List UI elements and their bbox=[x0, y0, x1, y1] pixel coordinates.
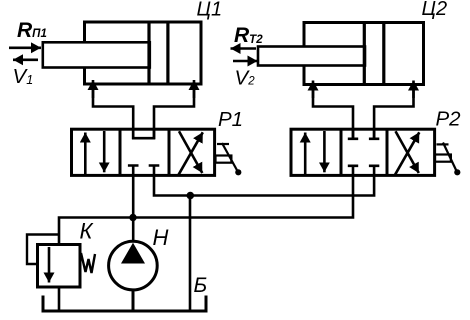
valve Р1 left position parallel arrows bbox=[85, 131, 104, 174]
force arrow RП1 bbox=[9, 46, 41, 49]
wire: Р1 P-port down to pump pressure line bbox=[132, 175, 135, 242]
svg-text:Ц1: Ц1 bbox=[197, 0, 223, 21]
valve Р2 left position parallel arrows bbox=[305, 131, 324, 174]
valve Р1 centre position (A-B joined, P,T blocked) bbox=[128, 130, 159, 176]
svg-text:Р2: Р2 bbox=[436, 108, 462, 131]
cylinder Ц2 bbox=[258, 23, 424, 85]
lever actuator of Р2 bbox=[435, 143, 460, 176]
valve Р2 right position crossed arrows bbox=[395, 131, 419, 175]
velocity arrow V2 bbox=[233, 60, 258, 63]
wire: Ц1 cap-side port to valve Р1 (with arrow into cylinder) bbox=[154, 80, 194, 139]
pump Н bbox=[109, 241, 158, 311]
valve Р1 body bbox=[72, 129, 215, 175]
svg-text:Н: Н bbox=[153, 225, 169, 250]
svg-text:RП1: RП1 bbox=[17, 19, 47, 42]
force arrow RТ2 bbox=[231, 47, 257, 50]
cylinder Ц1 bbox=[43, 22, 201, 84]
svg-text:V2: V2 bbox=[235, 67, 256, 90]
wire: Ц1 rod-side port to valve Р1 (with arrow into cylinder) bbox=[93, 80, 133, 139]
wire: tank return line Р1 T-port to Р2 T-port bbox=[154, 175, 374, 196]
wire: pump pressure line to relief valve and Р2 P-port bbox=[59, 175, 353, 245]
wire: Ц2 rod-side port to valve Р2 (with arrow into cylinder) bbox=[313, 81, 353, 140]
velocity arrow V1 bbox=[13, 58, 38, 61]
tank Б bbox=[43, 296, 206, 312]
wire: Ц2 cap-side port to valve Р2 (with arrow into cylinder) bbox=[374, 81, 413, 140]
junction dot on pump pressure line bbox=[129, 214, 136, 221]
valve Р2 centre position (all ports blocked) bbox=[348, 130, 380, 176]
svg-text:Р1: Р1 bbox=[218, 108, 243, 131]
valve Р1 right position crossed arrows bbox=[179, 131, 203, 175]
svg-text:Ц2: Ц2 bbox=[422, 0, 448, 20]
svg-text:V1: V1 bbox=[13, 65, 34, 88]
svg-text:RТ2: RТ2 bbox=[234, 24, 263, 47]
wire: tank return drop to tank Б bbox=[189, 196, 192, 312]
junction dot on tank return line bbox=[187, 192, 195, 200]
lever actuator of Р1 bbox=[216, 143, 242, 175]
svg-text:К: К bbox=[80, 219, 94, 244]
valve Р2 body bbox=[291, 129, 435, 175]
svg-text:Б: Б bbox=[194, 274, 208, 297]
relief valve К bbox=[27, 235, 95, 312]
